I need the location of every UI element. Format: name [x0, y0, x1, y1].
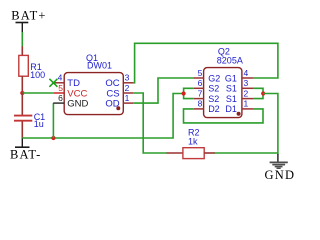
- pin 2 S1 of Q2: [226, 88, 253, 104]
- pin 6 S2 of Q2: [194, 78, 219, 94]
- pin 5 G2 of Q2: [194, 68, 220, 84]
- wire OC to G1 top rail: [133, 43, 278, 83]
- node junction GND wire at BAT- rail: [51, 136, 55, 140]
- svg-text:3: 3: [125, 73, 130, 83]
- pin 7 S2 of Q2: [194, 88, 219, 104]
- wire D2-D1 tie under Q2: [184, 109, 264, 123]
- svg-text:4: 4: [244, 68, 249, 78]
- wire R2 right to GND rail: [215, 152, 278, 154]
- pin 6 GND of Q1: [53, 93, 88, 110]
- wire S2 tie (pins 6-7): [184, 88, 194, 98]
- capacitor C1: [14, 93, 45, 138]
- ground GND symbol: [265, 154, 296, 182]
- svg-text:4: 4: [58, 73, 63, 83]
- wire OD up to G2: [133, 78, 194, 103]
- svg-text:8: 8: [198, 99, 203, 109]
- svg-text:1u: 1u: [34, 119, 44, 129]
- svg-text:100: 100: [30, 70, 45, 80]
- node BAT+ port: [11, 8, 46, 32]
- pin 3 S1 of Q2: [226, 78, 253, 94]
- svg-text:BAT-: BAT-: [10, 148, 41, 162]
- svg-text:1: 1: [125, 93, 130, 103]
- svg-text:DW01: DW01: [87, 61, 112, 71]
- pin 3 OC of Q1: [105, 73, 133, 90]
- svg-text:8205A: 8205A: [217, 55, 243, 65]
- node decor dot Q2 D1: [237, 112, 241, 116]
- svg-text:D2: D2: [208, 104, 220, 114]
- svg-text:3: 3: [244, 78, 249, 88]
- svg-text:GND: GND: [67, 99, 88, 110]
- svg-text:G2: G2: [208, 73, 220, 83]
- wire BAT- rail to 8205A S2 junction: [22, 94, 184, 139]
- svg-text:BAT+: BAT+: [11, 8, 46, 22]
- transistor Q2 : IC 8205A body: [204, 46, 243, 117]
- svg-text:1k: 1k: [188, 137, 198, 147]
- node junction VCC (R1 bottom): [20, 91, 24, 95]
- svg-text:S1: S1: [226, 94, 237, 104]
- svg-text:S1: S1: [226, 84, 237, 94]
- svg-text:D1: D1: [225, 104, 237, 114]
- pin 2 CS of Q1: [106, 83, 133, 100]
- svg-text:S2: S2: [208, 94, 219, 104]
- pin 8 D2 of Q2: [194, 99, 220, 115]
- node decor dot Q1 OD: [116, 106, 120, 110]
- resistor R2: [167, 128, 215, 159]
- svg-text:2: 2: [125, 83, 130, 93]
- svg-text:7: 7: [198, 88, 203, 98]
- node junction S1: [261, 91, 265, 95]
- node junction S2: [182, 91, 186, 95]
- svg-text:1: 1: [244, 99, 249, 109]
- wire S1 tie (pins 3-2): [253, 88, 263, 98]
- node BAT- port: [10, 138, 41, 162]
- svg-text:6: 6: [58, 93, 63, 103]
- op-amp U1 : IC Q1 DW01 body: [64, 53, 123, 115]
- svg-text:5: 5: [198, 68, 203, 78]
- svg-text:GND: GND: [265, 168, 296, 182]
- wire S1 junction to GND rail: [263, 94, 278, 155]
- pin 1 OD of Q1: [105, 93, 133, 110]
- resistor R1: [19, 46, 45, 93]
- svg-text:S2: S2: [208, 84, 219, 94]
- pin 4 G1 of Q2: [225, 68, 253, 84]
- wire BAT+ to R1: [21, 32, 23, 47]
- pin 4 TD of Q1 with no-connect X: [49, 73, 80, 90]
- wire Q1 GND pin down to BAT- rail: [52, 103, 54, 138]
- svg-text:6: 6: [198, 78, 203, 88]
- wire VCC node to Q1 pin5: [22, 92, 54, 94]
- svg-text:5: 5: [58, 83, 63, 93]
- pin 5 VCC of Q1: [54, 83, 88, 100]
- pin 1 D1 of Q2: [225, 99, 253, 115]
- wire CS down to R2: [133, 93, 167, 153]
- svg-text:G1: G1: [225, 73, 237, 83]
- svg-text:2: 2: [244, 88, 249, 98]
